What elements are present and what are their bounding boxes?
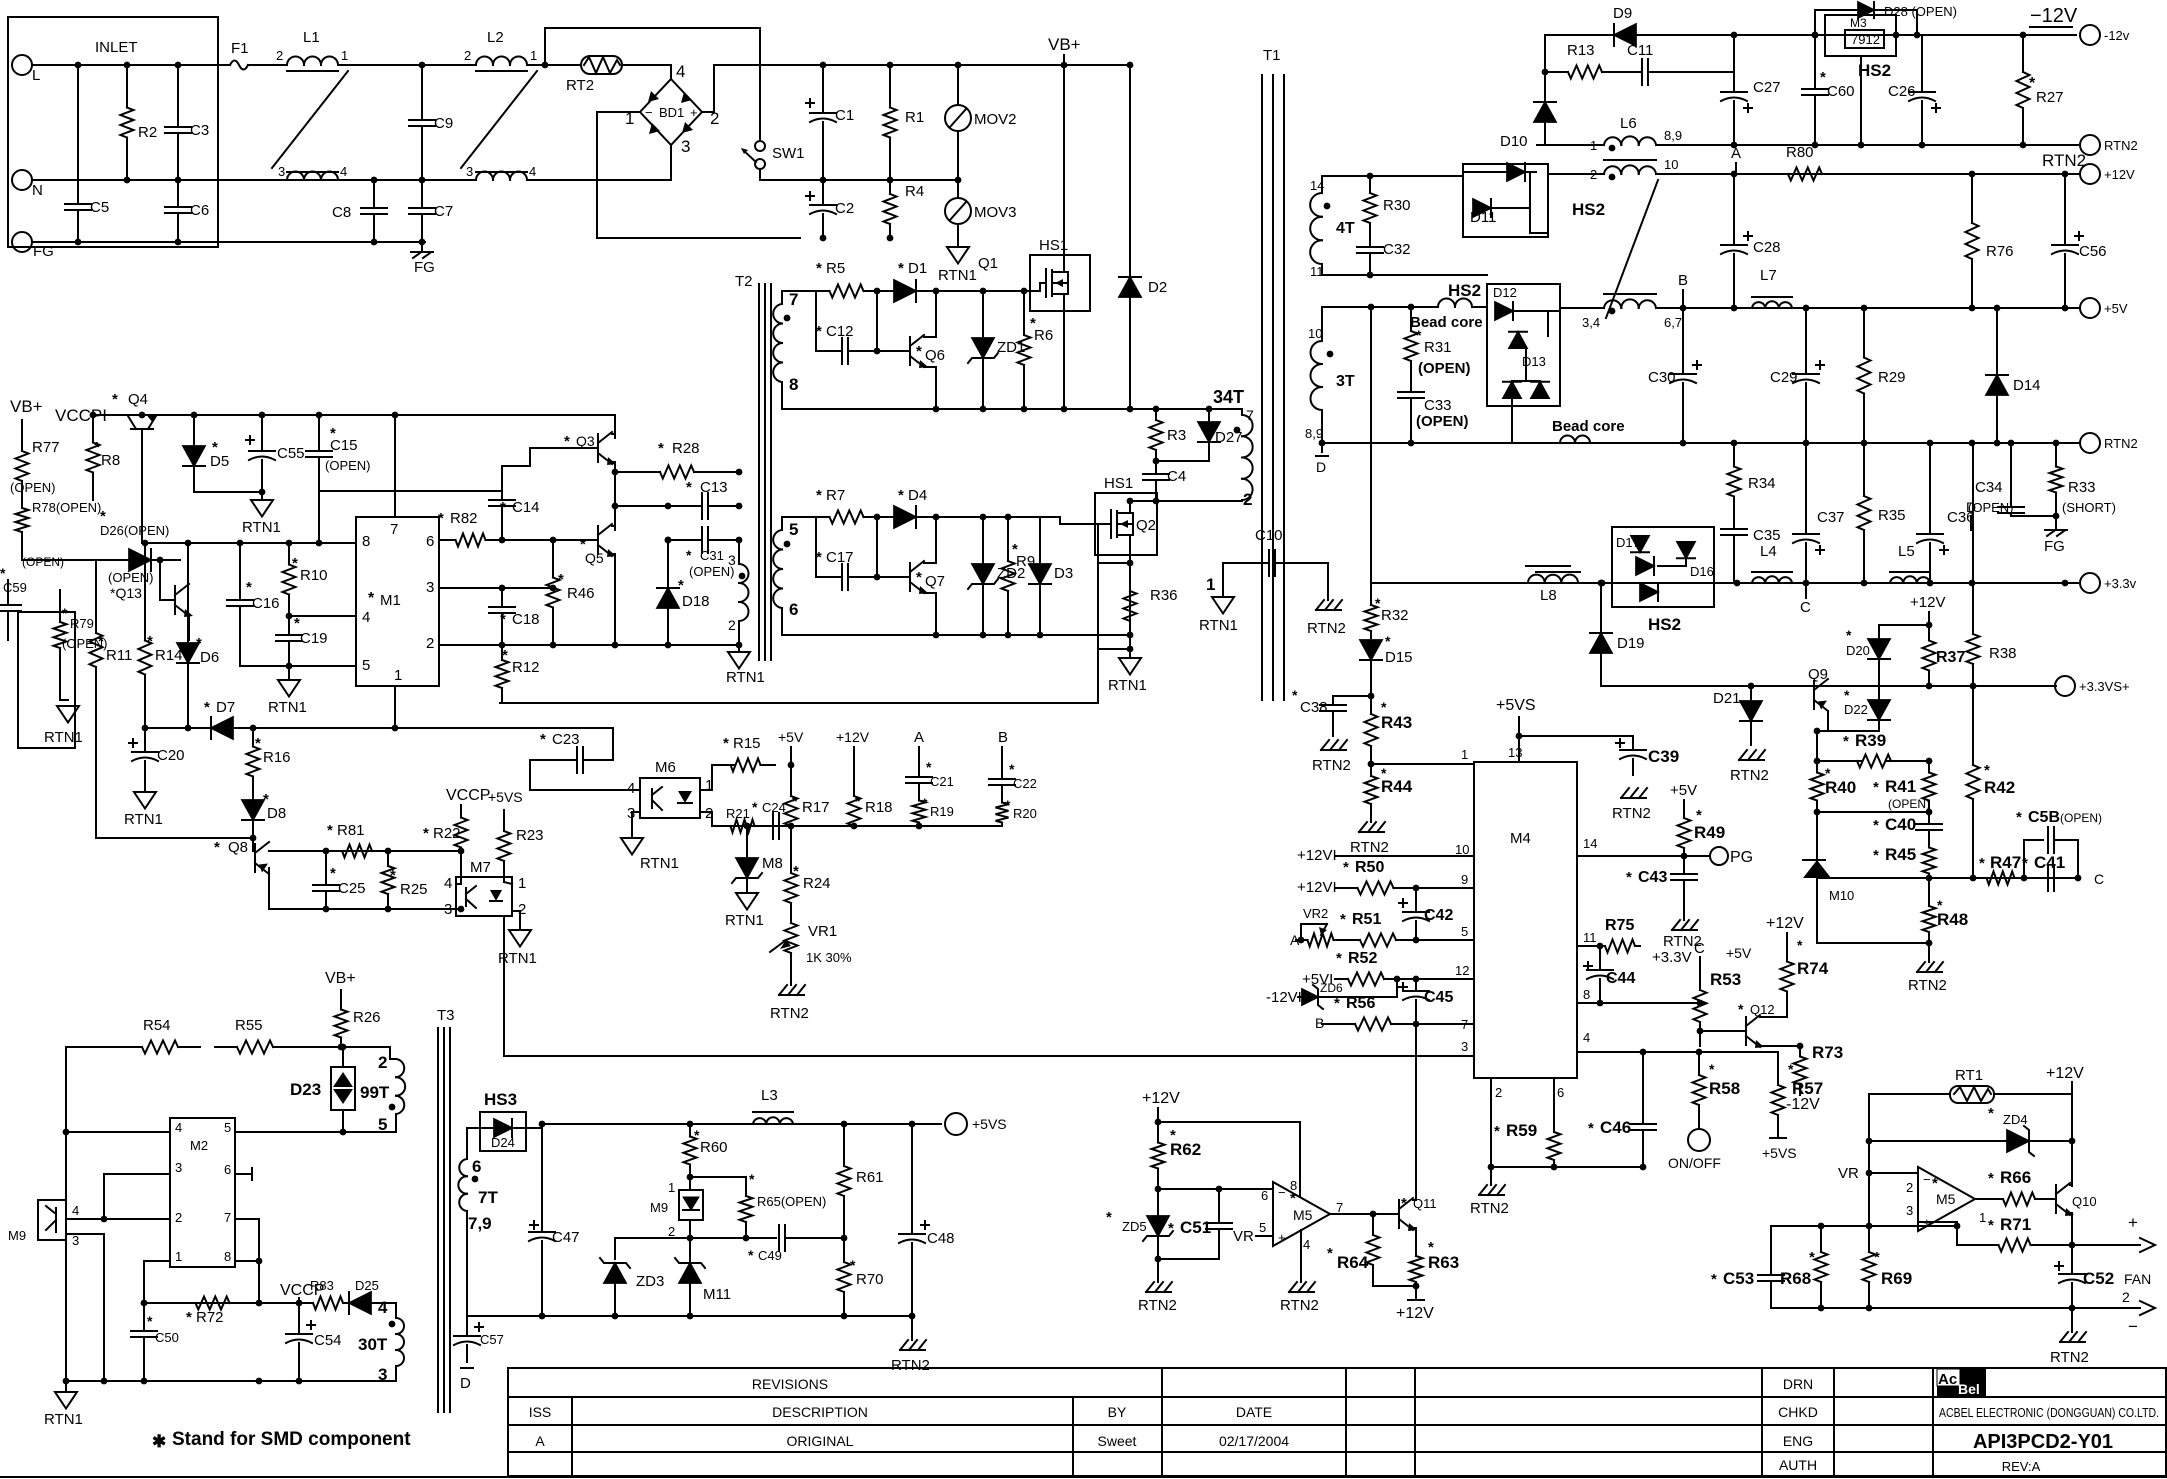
junction M9b bottom (687, 1235, 694, 1242)
wire pin3 row fan (1771, 1225, 1957, 1227)
svg-text:*: * (1844, 687, 1850, 703)
svg-text:*: * (294, 615, 300, 632)
junction R81 row (323, 848, 465, 855)
wire 7T to D24 (467, 1128, 494, 1159)
svg-text:C5B: C5B (2028, 809, 2060, 826)
svg-text:R73: R73 (1812, 1043, 1843, 1062)
svg-text:C37: C37 (1817, 509, 1845, 526)
svg-text:R24: R24 (803, 875, 831, 892)
svg-text:D17: D17 (1616, 535, 1640, 550)
svg-text:RTN1: RTN1 (124, 811, 163, 828)
svg-text:RTN2: RTN2 (2042, 151, 2086, 170)
svg-text:2: 2 (1495, 1085, 1502, 1100)
junctions feedback row (743, 1235, 750, 1242)
inductor L6 winding3 (1582, 294, 1682, 330)
wire Q1 source (1064, 294, 1068, 409)
wire M6 pin4 stub (626, 789, 640, 791)
resistor R5 (816, 260, 877, 298)
wire RT2 to BD1 pin4 (622, 65, 671, 79)
svg-text:C29: C29 (1770, 369, 1798, 386)
svg-text:C45: C45 (1424, 989, 1453, 1006)
net +12VI pin10 (1297, 847, 1337, 864)
svg-text:3: 3 (466, 164, 473, 179)
svg-text:*: * (147, 633, 153, 650)
wire 7T bottom (466, 1211, 468, 1316)
svg-text:1: 1 (394, 667, 402, 684)
wire C tick right (1805, 583, 1807, 598)
svg-text:-12V: -12V (1786, 1096, 1820, 1113)
resistor R71 (1957, 1215, 2072, 1252)
svg-text:ZD3: ZD3 (636, 1273, 664, 1290)
ground RTN2 below R48 (1908, 943, 1947, 994)
label HS2 M3 (1858, 61, 1891, 80)
svg-text:R46: R46 (567, 585, 595, 602)
wire VCCP tick (460, 805, 462, 814)
optocoupler M7 box (444, 859, 526, 918)
capacitor C27 (1721, 72, 1781, 145)
svg-text:C40: C40 (1885, 815, 1916, 834)
resistor R7 (816, 487, 877, 524)
svg-text:C23: C23 (552, 731, 580, 748)
wire B tick (1001, 747, 1003, 774)
net VB+ left (10, 397, 43, 416)
svg-text:6: 6 (224, 1162, 231, 1177)
svg-text:*: * (212, 439, 218, 456)
svg-text:M10: M10 (1829, 888, 1854, 903)
svg-text:R50: R50 (1355, 859, 1384, 876)
svg-text:*: * (147, 1313, 153, 1329)
connector L (12, 55, 40, 84)
net C far right (2094, 871, 2104, 887)
resistor R76 (1966, 174, 2014, 308)
svg-text:*: * (2016, 809, 2022, 826)
svg-text:C3: C3 (190, 122, 209, 139)
svg-text:8,9: 8,9 (1664, 128, 1682, 143)
svg-text:4: 4 (1303, 1237, 1310, 1252)
svg-text:R31: R31 (1424, 339, 1452, 356)
wire R36 row left (1098, 648, 1130, 650)
svg-text:R47: R47 (1990, 853, 2021, 872)
svg-text:D8: D8 (267, 805, 286, 822)
net B right (1678, 272, 1688, 289)
junction pin5 row (286, 663, 293, 670)
svg-text:R64: R64 (1337, 1253, 1369, 1272)
svg-text:*: * (2029, 75, 2036, 92)
wire pack to +5V row (1548, 308, 1560, 311)
wire M1 pin1 to D7 row (394, 686, 396, 728)
resistor R37 (1923, 625, 1966, 686)
capacitor C18 (489, 588, 540, 645)
ground RTN2 below ZD5 (1138, 1259, 1177, 1314)
wire VB+ tick left (21, 420, 23, 432)
title REVISIONS (752, 1376, 828, 1392)
svg-text:R38: R38 (1989, 645, 2017, 662)
potentiometer VR2 (1301, 906, 1340, 947)
svg-text:6,7: 6,7 (1664, 315, 1682, 330)
wire bottom row left (66, 1380, 396, 1382)
resistor R70 (838, 1238, 884, 1316)
wire 3T pin8,9 bottom (1321, 410, 1323, 443)
junction R82/R46 (499, 537, 672, 544)
svg-text:(OPEN): (OPEN) (10, 480, 56, 495)
svg-text:7: 7 (390, 521, 398, 538)
svg-text:C28: C28 (1753, 239, 1781, 256)
wire M3 gnd pin (1860, 56, 1862, 145)
mosfet Q2 (1111, 510, 1156, 538)
capacitor C5 (65, 65, 109, 242)
transformer T2 winding 3-2 (728, 552, 749, 633)
diode pack D12/D13 box (1487, 284, 1560, 406)
svg-text:VB+: VB+ (1048, 35, 1081, 54)
svg-text:*: * (1711, 1271, 1717, 1288)
svg-text:*: * (1843, 733, 1849, 750)
svg-text:ZD6: ZD6 (1320, 981, 1343, 995)
inductor L1 bottom winding (278, 164, 347, 180)
ground RTN1 primary (938, 238, 977, 284)
transformer T2 core (735, 273, 771, 660)
diode D6 (177, 625, 219, 690)
capacitor C50 (131, 1303, 179, 1381)
resistor R39 (1817, 731, 1929, 768)
svg-text:R39: R39 (1855, 731, 1886, 750)
svg-text:C46: C46 (1600, 1118, 1631, 1137)
svg-text:ORIGINAL: ORIGINAL (787, 1433, 854, 1449)
junctions RTN2 row2 (1408, 440, 2060, 447)
svg-text:R49: R49 (1694, 823, 1725, 842)
wire N line (32, 179, 476, 181)
svg-text:RTN1: RTN1 (726, 669, 765, 686)
junction R62 top (1155, 1119, 1162, 1126)
capacitor C34 (OPEN) (1968, 443, 2024, 516)
wire VR to pin2 (1869, 1173, 1918, 1185)
svg-text:M9: M9 (8, 1228, 26, 1243)
svg-text:RTN1: RTN1 (1108, 677, 1147, 694)
svg-text:11: 11 (1583, 930, 1597, 945)
wire -12V underline (2030, 26, 2072, 28)
svg-text:Q1: Q1 (978, 255, 998, 272)
inductor L4 (1752, 543, 1792, 583)
wire A tick (918, 747, 920, 772)
svg-text:HS2: HS2 (1858, 61, 1891, 80)
wire D7 row (145, 727, 395, 729)
svg-text:BD1: BD1 (659, 105, 684, 120)
net A label (914, 729, 924, 746)
svg-text:*: * (1428, 1239, 1434, 1256)
resistor R41 (OPEN) (1873, 761, 1936, 812)
svg-text:HS2: HS2 (1572, 200, 1605, 219)
svg-text:C19: C19 (300, 630, 328, 647)
svg-text:R36: R36 (1150, 587, 1178, 604)
diode D22 (1844, 687, 1890, 731)
svg-text:D7: D7 (216, 699, 235, 716)
svg-text:*: * (1416, 327, 1422, 343)
transistor Q5 (580, 524, 616, 566)
resistor R62 (1152, 1122, 1202, 1189)
wire R71 left elbow (1956, 1226, 1958, 1245)
wire R72 row (144, 1302, 259, 1304)
svg-text:AUTH: AUTH (1779, 1457, 1817, 1473)
wire Q2 source left (1098, 562, 1130, 564)
title CHKD (1778, 1404, 1818, 1420)
resistor R28 (615, 440, 739, 479)
svg-text:HS2: HS2 (1648, 615, 1681, 634)
wire Q8 collector row (269, 850, 461, 852)
svg-text:*: * (1626, 869, 1632, 886)
wire ZD6 to pin12 node (1396, 979, 1398, 997)
junction Q12 base (1697, 1028, 1704, 1035)
wire Q8 bottom row (269, 908, 461, 910)
junction R13 left (1542, 69, 1549, 76)
junction R73 top (1797, 1043, 1804, 1050)
svg-text:C: C (2094, 871, 2104, 887)
svg-text:CHKD: CHKD (1778, 1404, 1818, 1420)
svg-text:R75: R75 (1605, 917, 1634, 934)
capacitor C13 (668, 479, 739, 519)
svg-text:*: * (793, 863, 799, 880)
net VB+ bottom (325, 970, 356, 987)
svg-text:C18: C18 (512, 611, 540, 628)
svg-text:*: * (1846, 627, 1852, 643)
wire R3/D27 join (1156, 460, 1209, 462)
wire M4 pin13 (1518, 717, 1520, 762)
resistor R63 (1410, 1239, 1460, 1286)
svg-text:*: * (1106, 1209, 1112, 1226)
wire D6 top (187, 543, 189, 625)
junction RT2 left (542, 62, 549, 69)
svg-text:3: 3 (426, 579, 434, 596)
transistor Q9 (1808, 666, 1828, 711)
net D tick bottom (1316, 443, 1328, 475)
wire N line to bridge (527, 179, 671, 181)
net C right (1800, 599, 1811, 616)
junction FG row right (371, 239, 426, 246)
svg-text:*: * (1588, 1120, 1594, 1137)
junctions fan bottom row (1818, 1305, 2076, 1312)
svg-text:*: * (502, 647, 508, 664)
terminal PG (1684, 847, 1753, 866)
svg-text:*: * (500, 499, 506, 516)
svg-text:REVISIONS: REVISIONS (752, 1376, 828, 1392)
net +5V M6 (778, 729, 804, 745)
bottom border line (0, 1476, 2167, 1478)
svg-text:C31: C31 (700, 548, 724, 563)
svg-text:C1: C1 (835, 107, 854, 124)
wire M2 pin2 row (66, 1218, 170, 1220)
junction D26 out (157, 557, 164, 564)
title DRN (1783, 1376, 1813, 1392)
svg-text:5: 5 (1259, 1220, 1266, 1235)
wire VCCP rail (93, 414, 615, 416)
wire left vertical (65, 1047, 67, 1381)
wire VR to pin5 (1256, 1235, 1273, 1237)
svg-text:R69: R69 (1881, 1269, 1912, 1288)
svg-text:*: * (1984, 762, 1990, 779)
svg-text:+12V: +12V (2104, 167, 2135, 182)
svg-text:4: 4 (444, 875, 452, 892)
transistor Q3 (564, 432, 616, 465)
capacitor C47 (529, 1124, 580, 1316)
capacitor C25 (313, 851, 366, 909)
svg-text:3T: 3T (1336, 373, 1355, 390)
wire Q12 collector (1760, 1014, 1787, 1017)
capacitor C49 (748, 1225, 806, 1263)
svg-text:*: * (112, 391, 118, 408)
diode D1 (877, 260, 1024, 302)
junction C44 bottom (1597, 1000, 1604, 1007)
svg-text:C27: C27 (1753, 79, 1781, 96)
svg-text:C11: C11 (1627, 42, 1653, 59)
svg-text:2: 2 (1243, 490, 1252, 509)
svg-text:1: 1 (668, 1180, 675, 1195)
svg-text:+12VI: +12VI (1297, 879, 1337, 896)
diode D7 (204, 699, 235, 739)
terminal +3.3VS+ (2055, 676, 2130, 696)
svg-text:(OPEN): (OPEN) (1418, 360, 1471, 377)
svg-text:DESCRIPTION: DESCRIPTION (772, 1404, 868, 1420)
wire D12/D13 bottom (1511, 399, 1513, 443)
svg-text:8: 8 (224, 1249, 231, 1264)
diode D2 (1119, 65, 1167, 409)
net +12V below R63 (1396, 1286, 1434, 1322)
svg-text:6: 6 (1261, 1188, 1268, 1203)
M2 pin6 stub (235, 1168, 252, 1180)
wire 4T pin11 row (1322, 264, 1487, 275)
open box Q13 (18, 612, 75, 748)
diode D14 (1986, 308, 2041, 443)
svg-text:6: 6 (472, 1157, 481, 1176)
wire R54 left (66, 1046, 120, 1048)
svg-text:C13: C13 (700, 479, 728, 496)
ground RTN1 C10 (1199, 563, 1238, 634)
svg-text:4: 4 (627, 780, 635, 797)
svg-text:R29: R29 (1878, 369, 1906, 386)
resistor R43 (1365, 696, 1413, 764)
svg-text:*: * (1873, 847, 1879, 864)
wire R63/R64 bottom (1373, 1285, 1416, 1287)
junction Q2 source (1127, 560, 1134, 567)
svg-text:*: * (1340, 911, 1346, 928)
wire VB+ tick bottom (340, 990, 342, 1000)
ground RTN1 below M6 (621, 826, 679, 872)
wire top loop over RT2 (545, 28, 760, 141)
junction R48 bottom (1926, 940, 1933, 947)
wire Q8 emitter (268, 868, 270, 909)
wire pin12 row (1397, 978, 1474, 980)
wire Q7 collector (924, 517, 936, 563)
svg-text:VR2: VR2 (1303, 906, 1328, 921)
svg-text:*: * (855, 793, 861, 809)
junction R18 bottom (851, 823, 858, 830)
wire M10 bottom row (1817, 942, 1929, 944)
resistor R14 (139, 625, 183, 690)
wire A tick right (1735, 163, 1737, 174)
svg-text:*: * (1932, 1175, 1938, 1192)
ground RTN1 below M7 (498, 930, 537, 967)
wire M1 pin8 row (142, 542, 356, 544)
svg-text:VR1: VR1 (808, 923, 837, 940)
svg-text:HS1: HS1 (1104, 475, 1133, 492)
svg-text:C55: C55 (277, 445, 305, 462)
svg-text:R27: R27 (2036, 89, 2064, 106)
svg-text:7912: 7912 (1851, 32, 1880, 47)
wire M2 pin3 (104, 1174, 170, 1219)
wire C15 col to pin8 (318, 490, 320, 543)
svg-text:ENG: ENG (1783, 1433, 1813, 1449)
svg-text:RTN1: RTN1 (938, 267, 977, 284)
svg-text:VR: VR (1233, 1228, 1254, 1245)
junction R7/D4 (874, 514, 881, 521)
resistor R12 (496, 645, 540, 703)
junction VR2 left (1298, 937, 1305, 944)
capacitor C35 (1721, 520, 1781, 582)
wire R38 top to RTN2 row (1972, 443, 1974, 612)
wire R43 to M4 pin1 (1370, 763, 1372, 765)
svg-text:R74: R74 (1797, 959, 1829, 978)
svg-text:3: 3 (175, 1160, 182, 1175)
wire M2 pin1 (144, 1261, 170, 1303)
wire M4 pin2 (1490, 1078, 1492, 1167)
optocoupler M9 box (8, 1200, 79, 1248)
wire D23 top (342, 1047, 344, 1067)
svg-text:RT1: RT1 (1955, 1067, 1983, 1084)
capacitor C2 (806, 180, 854, 238)
transformer 30T winding (358, 1298, 404, 1384)
title company (1939, 1406, 2159, 1420)
ground RTN2 below C43 (1663, 920, 1702, 950)
svg-text:D9: D9 (1613, 5, 1632, 22)
svg-text:D14: D14 (2013, 377, 2041, 394)
wire T2 pin7 to R5 (782, 291, 816, 304)
svg-text:C56: C56 (2079, 243, 2107, 260)
svg-text:R17: R17 (802, 799, 830, 816)
svg-text:C60: C60 (1827, 83, 1855, 100)
junctions pin3 row fan (1818, 1223, 1873, 1230)
svg-text:+5VS: +5VS (1762, 1145, 1797, 1161)
svg-text:2: 2 (276, 48, 283, 63)
svg-text:L7: L7 (1760, 267, 1777, 284)
svg-text:C38: C38 (1300, 699, 1328, 716)
wire Q2 source (1130, 535, 1133, 563)
resistor R42 (1967, 686, 2016, 878)
label (OPEN) C59 (22, 555, 64, 569)
title part number (1973, 1431, 2113, 1453)
wire pin8 row ext (1600, 1002, 1697, 1004)
wire D8 to Q8 base (252, 838, 254, 851)
junctions pin2 row (499, 642, 743, 649)
svg-text:M5: M5 (1936, 1191, 1956, 1207)
wire Q4 stem down (141, 429, 143, 543)
svg-text:A: A (1731, 145, 1741, 162)
svg-text:*: * (749, 1171, 755, 1187)
wire R49 top tick (1683, 800, 1685, 810)
svg-text:10: 10 (1308, 326, 1322, 341)
junctions -12V rail (1731, 32, 2027, 39)
junction R64 top (1370, 1211, 1377, 1218)
svg-text:R16: R16 (263, 749, 291, 766)
svg-text:+5V: +5V (1670, 782, 1697, 799)
svg-text:D26(OPEN): D26(OPEN) (100, 523, 169, 538)
wire R11 join Q8 node (96, 837, 253, 839)
junctions +3.3VS row (1748, 683, 1977, 690)
svg-text:RTN2: RTN2 (2104, 138, 2138, 153)
wire PSON long to M4 pin3 (504, 916, 1474, 1056)
svg-text:1: 1 (1979, 1210, 1986, 1225)
ground RTN2 below C48 (891, 1316, 930, 1374)
junction M8 top (744, 823, 751, 830)
resistor R57 (1772, 1061, 1824, 1138)
svg-text:C34: C34 (1975, 479, 2003, 496)
svg-text:RTN2: RTN2 (770, 1005, 809, 1022)
